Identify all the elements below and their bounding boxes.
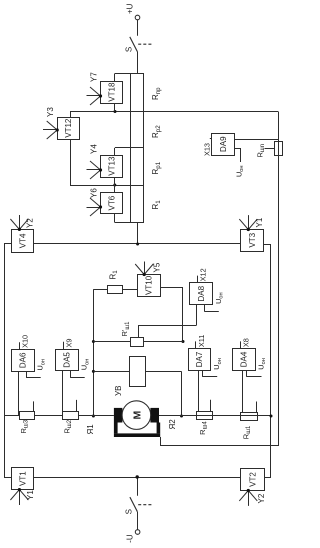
svg-text:VT10: VT10 bbox=[145, 275, 154, 295]
svg-text:УВ: УВ bbox=[114, 386, 123, 396]
svg-text:Y2: Y2 bbox=[26, 218, 35, 228]
svg-text:DA7: DA7 bbox=[195, 351, 204, 367]
svg-text:VT6: VT6 bbox=[107, 195, 116, 210]
svg-text:Y7: Y7 bbox=[90, 72, 99, 82]
svg-text:Y1: Y1 bbox=[255, 217, 264, 227]
svg-text:DA4: DA4 bbox=[240, 351, 249, 367]
svg-text:VT4: VT4 bbox=[18, 233, 27, 248]
svg-text:VT2: VT2 bbox=[248, 472, 257, 487]
svg-text:X11: X11 bbox=[197, 335, 206, 347]
svg-text:X13: X13 bbox=[202, 143, 211, 156]
svg-text:Y2: Y2 bbox=[257, 493, 266, 503]
svg-text:X10: X10 bbox=[21, 335, 30, 348]
svg-text:DA6: DA6 bbox=[19, 352, 28, 368]
svg-text:S: S bbox=[125, 509, 134, 514]
svg-text:Я2: Я2 bbox=[168, 419, 177, 430]
svg-text:Y6: Y6 bbox=[90, 188, 99, 198]
svg-text:M: M bbox=[132, 410, 144, 419]
svg-text:DA9: DA9 bbox=[219, 136, 228, 152]
svg-text:VT12: VT12 bbox=[64, 118, 73, 138]
svg-text:S: S bbox=[124, 47, 133, 52]
svg-text:VT18: VT18 bbox=[107, 82, 116, 102]
svg-text:Я1: Я1 bbox=[86, 424, 95, 435]
svg-text:X9: X9 bbox=[65, 339, 74, 348]
svg-text:X8: X8 bbox=[241, 338, 250, 347]
svg-text:DA5: DA5 bbox=[63, 352, 72, 368]
svg-text:DA8: DA8 bbox=[197, 285, 206, 301]
svg-text:Y3: Y3 bbox=[46, 107, 55, 117]
svg-text:Y5: Y5 bbox=[153, 262, 162, 272]
svg-text:VT3: VT3 bbox=[248, 232, 257, 247]
svg-text:VT1: VT1 bbox=[19, 471, 28, 486]
svg-text:Y1: Y1 bbox=[26, 490, 35, 500]
svg-text:Y4: Y4 bbox=[90, 144, 99, 154]
svg-text:X12: X12 bbox=[199, 268, 208, 281]
svg-text:VT13: VT13 bbox=[107, 156, 116, 176]
svg-text:-U: -U bbox=[125, 534, 134, 543]
svg-text:+U: +U bbox=[125, 3, 134, 14]
